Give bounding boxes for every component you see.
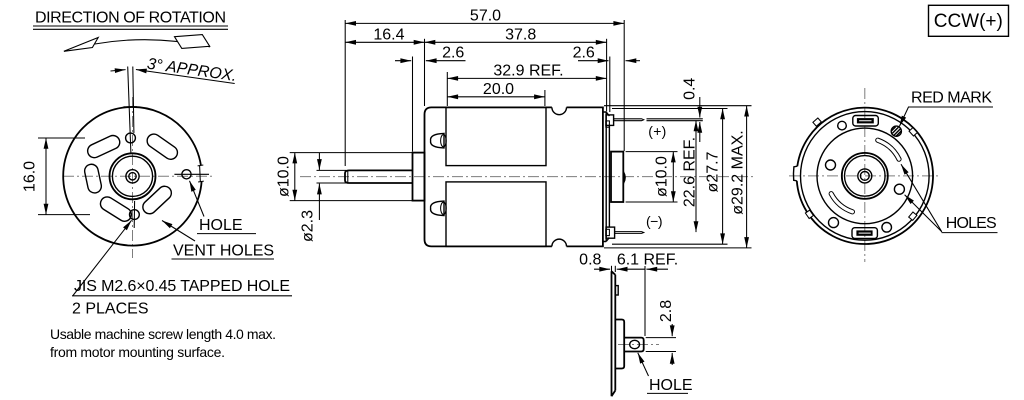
dim dia10.0 right bbox=[672, 152, 674, 202]
dim 57.0 bbox=[345, 22, 624, 24]
HOLES leader 1 bbox=[905, 195, 942, 232]
vent hole right bbox=[894, 184, 904, 194]
VENT HOLES leader bbox=[162, 221, 195, 242]
tapped hole bottom bbox=[130, 210, 140, 220]
HOLE underline bbox=[197, 233, 256, 235]
16.0 dim line bbox=[45, 138, 47, 215]
svg-text:HOLES: HOLES bbox=[946, 215, 997, 232]
rear outer circle bbox=[797, 108, 933, 244]
rear arc slot upper right bbox=[878, 140, 899, 159]
svg-text:0.8: 0.8 bbox=[579, 251, 601, 268]
HOLE detail leader bbox=[638, 353, 649, 376]
VENT HOLES underline bbox=[172, 258, 275, 260]
vent slot lower-left bbox=[98, 194, 134, 223]
RED MARK leader bbox=[899, 107, 908, 126]
svg-text:37.8: 37.8 bbox=[505, 26, 536, 43]
rim tab upper-right bbox=[909, 128, 917, 136]
svg-text:HOLE: HOLE bbox=[199, 217, 243, 234]
svg-text:(+): (+) bbox=[648, 123, 666, 139]
dim 2.8 arrows bbox=[671, 324, 673, 336]
shaft center hole bbox=[129, 173, 136, 180]
main axis centerline bbox=[300, 176, 756, 178]
bottom tapped hole centerline bbox=[133, 201, 135, 228]
dim dia27.7 ext lines bbox=[612, 109, 728, 245]
svg-text:22.6 REF.: 22.6 REF. bbox=[682, 137, 699, 207]
vent hole lower-left bbox=[829, 218, 839, 228]
terminal slot bottom bbox=[852, 228, 877, 239]
dim dia29.2 MAX bbox=[746, 106, 748, 248]
ext line 6.1 right bbox=[644, 266, 646, 336]
JIS underline bbox=[72, 295, 292, 297]
rear shaft circle bbox=[858, 169, 872, 183]
rim tab lower-left bbox=[805, 210, 813, 218]
svg-text:CCW(+): CCW(+) bbox=[934, 11, 1003, 32]
svg-text:6.1 REF.: 6.1 REF. bbox=[617, 251, 678, 268]
vent hole lower-right bbox=[882, 223, 892, 233]
dim 2.8 ext lines bbox=[646, 338, 676, 352]
rear shaft pip bbox=[623, 172, 625, 183]
dim 0.8 / 6.1 REF line bbox=[594, 268, 610, 270]
shaft bbox=[345, 170, 413, 183]
dome bottom lens bbox=[441, 202, 447, 214]
3 degree arrow left bbox=[111, 70, 126, 71]
dim dia10.0 left ext lines bbox=[290, 153, 413, 201]
svg-text:0.4: 0.4 bbox=[681, 78, 698, 100]
svg-text:20.0: 20.0 bbox=[483, 81, 514, 98]
rim tab lower-right bbox=[909, 212, 917, 220]
shaft circle bbox=[126, 170, 139, 183]
ext line plate left bbox=[611, 266, 613, 272]
rotation arrowhead left bbox=[64, 38, 98, 52]
end plate edge view bbox=[612, 271, 616, 396]
front retainer dome top bbox=[431, 133, 444, 148]
rim notch chord bbox=[198, 165, 204, 182]
dim dia2.3 arrows bbox=[318, 153, 320, 170]
svg-text:ø10.0: ø10.0 bbox=[654, 156, 671, 197]
svg-text:16.0: 16.0 bbox=[22, 161, 39, 192]
rear crimp notch top bbox=[552, 106, 567, 109]
rear centerline vertical bbox=[864, 88, 866, 262]
centerline vertical (front view) bbox=[132, 97, 134, 258]
side hole right bbox=[182, 170, 191, 179]
svg-text:16.4: 16.4 bbox=[373, 26, 404, 43]
terminal tab profile bbox=[624, 338, 644, 352]
16.0 dim extension bottom bbox=[38, 214, 90, 216]
rotation arrowhead right bbox=[175, 35, 210, 49]
terminal blade minus bbox=[615, 232, 644, 234]
dim 2.6 left bbox=[395, 60, 411, 62]
svg-text:JIS M2.6×0.45 TAPPED HOLE: JIS M2.6×0.45 TAPPED HOLE bbox=[74, 278, 290, 295]
ext line flats left bbox=[446, 72, 448, 106]
rear bearing boss bbox=[611, 152, 623, 202]
front boss inner circle bbox=[112, 156, 152, 196]
svg-text:from motor mounting surface.: from motor mounting surface. bbox=[50, 344, 225, 360]
ext line boss front bbox=[412, 57, 414, 152]
centerline horizontal (front view) bbox=[63, 175, 212, 177]
DIRECTION OF ROTATION underline bbox=[33, 26, 228, 29]
CCW box bbox=[929, 5, 1009, 36]
3 degree tilted line left bbox=[128, 67, 131, 154]
HOLE detail underline bbox=[647, 392, 688, 394]
vent hole upper-left bbox=[838, 121, 847, 130]
16.0 dim extension top bbox=[38, 137, 85, 139]
side hole centerline tick bbox=[174, 173, 209, 175]
terminal clip minus bbox=[606, 227, 615, 238]
vent slot lower-right bbox=[140, 183, 174, 216]
svg-text:ø10.0: ø10.0 bbox=[276, 156, 293, 197]
detail centerline bbox=[618, 344, 659, 346]
rear rim inner circle bbox=[801, 112, 930, 241]
RED MARK underline bbox=[908, 106, 993, 108]
plate small tab bbox=[615, 286, 618, 295]
svg-text:2.6: 2.6 bbox=[573, 45, 595, 62]
ext line flats right bbox=[544, 90, 546, 106]
dim dia10.0 left bbox=[294, 153, 296, 201]
vent hole left bbox=[826, 160, 836, 170]
front boss outer circle bbox=[110, 153, 156, 199]
terminal clip plus bbox=[606, 115, 614, 126]
dim 0.4 ext lines bbox=[647, 119, 703, 121]
svg-text:2.6: 2.6 bbox=[442, 45, 464, 62]
rim seam left bbox=[793, 166, 797, 181]
3 degree arrow right and leader bbox=[136, 70, 235, 84]
dim 16.4 bbox=[345, 41, 424, 43]
dome top lens bbox=[441, 135, 447, 147]
vent slot left bbox=[83, 163, 102, 194]
front retainer dome bottom bbox=[431, 201, 444, 215]
vent slot upper-left bbox=[85, 133, 122, 160]
can flat top rectangle bbox=[446, 107, 546, 165]
ext line plate right bbox=[614, 266, 616, 272]
can flat bottom rectangle bbox=[446, 182, 546, 247]
HOLES leader 2 bbox=[901, 164, 942, 232]
ext line rear end bbox=[623, 20, 625, 151]
front bearing boss bbox=[413, 153, 425, 201]
svg-text:57.0: 57.0 bbox=[470, 7, 501, 24]
rear boss inner circle bbox=[845, 156, 886, 197]
svg-text:RED MARK: RED MARK bbox=[911, 90, 992, 107]
motor can body bbox=[425, 107, 603, 246]
rear centerline horizontal bbox=[789, 175, 941, 177]
red mark hatched circle bbox=[891, 126, 901, 136]
HOLES underline bbox=[942, 232, 998, 234]
svg-text:VENT HOLES: VENT HOLES bbox=[173, 243, 274, 260]
terminal hole bbox=[630, 340, 640, 348]
brush holder boss profile bbox=[615, 320, 624, 369]
rim tab upper-left bbox=[813, 118, 821, 126]
dim 20.0 bbox=[447, 96, 545, 98]
dim 22.6 REF bbox=[695, 120, 697, 232]
svg-text:Usable machine screw length 4.: Usable machine screw length 4.0 max. bbox=[50, 326, 276, 342]
dim 2.6 right bbox=[578, 60, 609, 62]
ext line shaft tip bbox=[344, 20, 346, 166]
rear arc slot lower left bbox=[831, 194, 852, 212]
dim dia27.7 bbox=[722, 109, 724, 245]
svg-text:ø27.7: ø27.7 bbox=[705, 151, 722, 192]
rear can circle bbox=[817, 128, 913, 224]
rear crimp notch bottom bbox=[552, 245, 567, 248]
JIS tapped hole leader bbox=[73, 220, 132, 295]
terminal blade plus bbox=[614, 119, 644, 121]
terminal slot top bbox=[853, 116, 879, 127]
vent slot upper-right bbox=[145, 131, 181, 162]
ext line cap face bbox=[606, 39, 608, 112]
top rim seam tick bbox=[124, 106, 138, 108]
tapped hole top bbox=[126, 133, 136, 143]
dim dia2.3 ext lines bbox=[317, 170, 347, 183]
end cap bbox=[603, 112, 610, 242]
dim 32.9 REF bbox=[447, 77, 606, 79]
dim dia29.2 ext lines bbox=[604, 106, 752, 248]
rear shaft dot bbox=[860, 172, 869, 181]
svg-text:2 PLACES: 2 PLACES bbox=[72, 301, 148, 318]
dim 37.8 bbox=[425, 41, 607, 43]
ext line can front bbox=[424, 39, 426, 106]
dim 0.4 arrows bbox=[699, 97, 701, 118]
svg-text:HOLE: HOLE bbox=[649, 377, 693, 394]
rear boss outer circle bbox=[842, 153, 888, 199]
svg-text:DIRECTION OF ROTATION: DIRECTION OF ROTATION bbox=[35, 10, 226, 27]
dim dia10.0 right ext lines bbox=[626, 152, 678, 202]
svg-text:2.8: 2.8 bbox=[658, 300, 675, 322]
svg-text:32.9 REF.: 32.9 REF. bbox=[493, 62, 563, 79]
svg-text:(−): (−) bbox=[646, 213, 663, 229]
curved rotation arrow bbox=[64, 40, 210, 52]
3 degree tilted line right bbox=[133, 67, 134, 134]
svg-text:ø29.2 MAX.: ø29.2 MAX. bbox=[730, 130, 747, 214]
shaft end facet line bbox=[347, 170, 349, 183]
HOLE label leader bbox=[190, 181, 205, 217]
svg-text:ø2.3: ø2.3 bbox=[299, 210, 316, 242]
motor front rim circle with notch bbox=[63, 107, 201, 246]
